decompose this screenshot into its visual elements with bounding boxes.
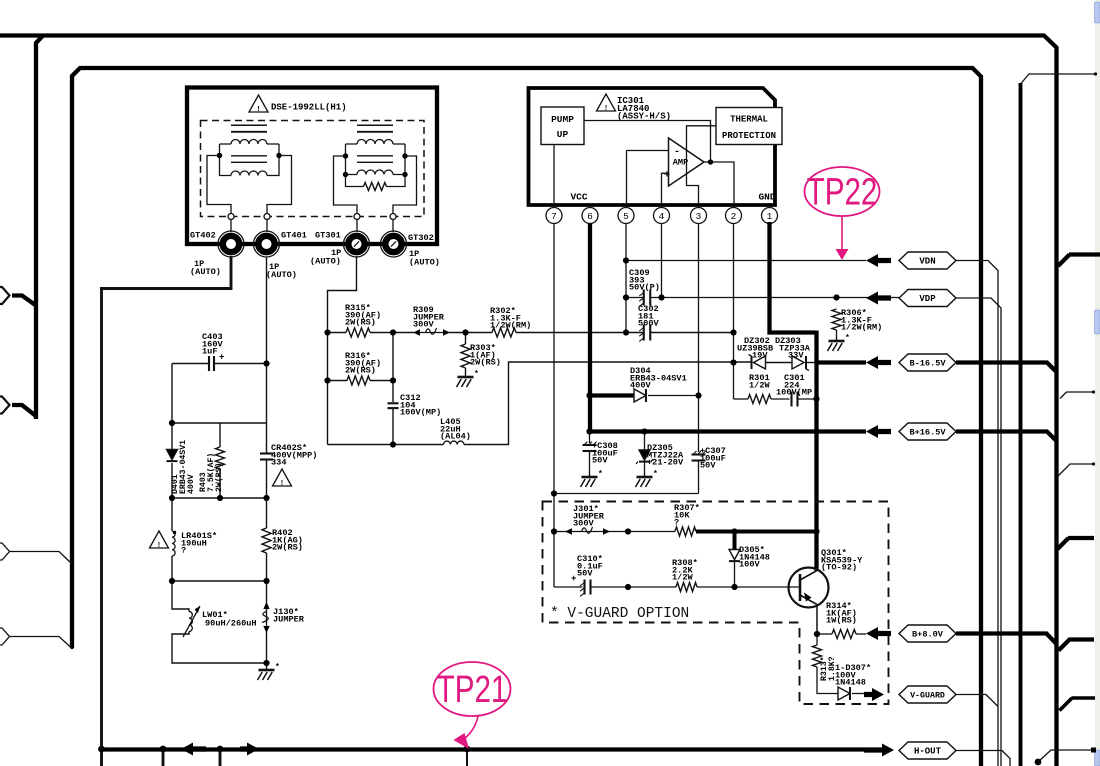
svg-text:!: ! [604,105,608,113]
svg-text:300V: 300V [413,320,434,330]
svg-text:100V(MP: 100V(MP [776,388,812,398]
svg-text:100V: 100V [739,560,760,570]
svg-text:50V: 50V [592,456,608,466]
svg-text:3: 3 [696,211,702,222]
svg-text:*: * [598,470,603,479]
svg-text:(AUTO): (AUTO) [409,258,440,268]
svg-text:90uH/260uH: 90uH/260uH [205,619,257,629]
svg-text:UP: UP [557,129,569,140]
svg-text:VDP: VDP [919,294,936,304]
svg-text:50V: 50V [700,461,716,471]
svg-text:2W(RS): 2W(RS) [345,318,376,328]
svg-text:+: + [571,574,576,584]
svg-text:?: ? [674,518,679,528]
svg-text:*: * [845,334,850,343]
svg-text:(AUTO): (AUTO) [190,267,221,277]
svg-text:+: + [219,353,224,363]
svg-text:1/2W: 1/2W [672,573,693,583]
svg-text:*: * [653,470,658,479]
svg-text:19V: 19V [752,351,768,361]
svg-text:1N4148: 1N4148 [835,678,866,688]
svg-text:6: 6 [587,211,593,222]
svg-text:1/2W(RM): 1/2W(RM) [490,321,531,331]
svg-text:2: 2 [731,211,737,222]
svg-text:GT401: GT401 [281,231,307,241]
svg-text:7: 7 [551,211,557,222]
svg-text:!: ! [280,480,284,488]
svg-text:H-OUT: H-OUT [914,747,942,757]
svg-text:B-16.5V: B-16.5V [909,359,946,369]
svg-text:GT302: GT302 [408,233,434,243]
svg-text:B+16.5V: B+16.5V [909,428,946,438]
svg-text:VCC: VCC [570,192,587,203]
svg-text:!: ! [256,106,260,114]
svg-text:334: 334 [271,458,286,468]
svg-text:50V: 50V [577,569,593,579]
svg-text:TZP33A: TZP33A [779,343,811,353]
svg-text:TP22: TP22 [807,171,878,213]
svg-text:JUMPER: JUMPER [273,614,305,624]
svg-text:2W(RS): 2W(RS) [345,366,376,376]
svg-text:PROTECTION: PROTECTION [722,131,776,141]
svg-text:1: 1 [767,211,773,222]
svg-text:+21-20V: +21-20V [647,458,684,468]
svg-text:1uF: 1uF [202,347,217,357]
svg-text:GND: GND [758,192,775,203]
svg-text:5: 5 [623,211,629,222]
svg-text:+: + [664,171,670,182]
svg-text:2W(RS): 2W(RS) [214,463,224,492]
svg-text:GT402: GT402 [190,231,216,241]
svg-text:V-GUARD: V-GUARD [910,692,945,701]
svg-text:*: * [474,370,479,379]
svg-text:THERMAL: THERMAL [730,115,768,125]
svg-text:1.8K?: 1.8K? [828,656,837,681]
svg-text:100V(MP): 100V(MP) [400,408,441,418]
svg-text:?: ? [181,546,186,556]
svg-text:400V: 400V [187,474,196,494]
svg-text:500V: 500V [638,319,659,329]
svg-text:1/2W: 1/2W [749,380,770,390]
svg-text:2W(RS): 2W(RS) [470,358,501,368]
svg-text:-: - [674,147,680,158]
svg-text:(AUTO): (AUTO) [266,270,297,280]
svg-text:PUMP: PUMP [551,114,574,125]
svg-text:* V-GUARD OPTION: * V-GUARD OPTION [550,606,689,622]
svg-text:50V(P): 50V(P) [629,283,660,293]
svg-text:!: ! [157,542,161,550]
svg-text:(AUTO): (AUTO) [310,257,341,267]
svg-text:2W(RS): 2W(RS) [272,543,303,553]
svg-text:TP21: TP21 [437,669,508,711]
svg-text:GT301: GT301 [315,231,341,241]
svg-text:DSE-1992LL(H1): DSE-1992LL(H1) [271,103,347,113]
svg-text:B+8.0V: B+8.0V [912,630,944,640]
svg-text:4: 4 [659,211,665,222]
svg-text:300V: 300V [573,519,594,529]
svg-text:(AL04): (AL04) [440,432,471,442]
svg-text:1/2W(RM): 1/2W(RM) [841,323,882,333]
svg-text:400V: 400V [630,381,651,391]
svg-text:VDN: VDN [919,257,935,267]
svg-text:*: * [275,663,280,672]
svg-text:1W(RS): 1W(RS) [826,616,857,626]
svg-text:(TO-92): (TO-92) [821,563,857,573]
